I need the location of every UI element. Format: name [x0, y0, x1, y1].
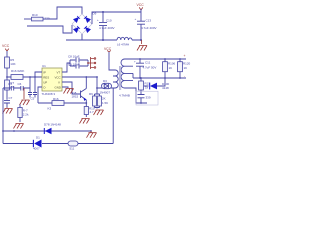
- svg-text:R120: R120: [183, 62, 191, 66]
- resistor R11: [68, 141, 78, 151]
- svg-text:270: 270: [45, 16, 50, 20]
- svg-text:RES: RES: [43, 75, 49, 79]
- svg-text:2.2k: 2.2k: [23, 113, 29, 117]
- svg-text:2K: 2K: [102, 97, 106, 101]
- svg-text:D3: D3: [103, 79, 107, 83]
- resistor R16: [48, 97, 65, 110]
- svg-text:D78 1N4148: D78 1N4148: [44, 122, 61, 126]
- ground under R14: [80, 119, 90, 124]
- svg-text:4007: 4007: [33, 146, 40, 150]
- diode D100: [144, 78, 170, 90]
- svg-text:4.7uF 400V: 4.7uF 400V: [99, 26, 115, 30]
- svg-text:R106: R106: [168, 62, 176, 66]
- capacitor C7: [4, 96, 13, 108]
- svg-text:C6: C6: [18, 82, 22, 86]
- svg-text:VCC: VCC: [55, 75, 61, 79]
- resistor R120: [178, 59, 191, 78]
- wire output rail lower: [133, 77, 186, 79]
- capacitor C13: [135, 9, 157, 40]
- svg-text:C4: C4: [8, 82, 12, 86]
- svg-text:R16: R16: [53, 97, 59, 101]
- svg-text:1N4007: 1N4007: [100, 90, 111, 94]
- svg-text:4.7uF 50V: 4.7uF 50V: [143, 66, 157, 70]
- svg-text:GND: GND: [55, 85, 61, 89]
- svg-text:C7: C7: [9, 96, 13, 100]
- node pin wires: [34, 76, 36, 78]
- wire pin GND stub: [62, 87, 68, 88]
- ground under R8: [14, 124, 24, 129]
- svg-text:C11: C11: [145, 61, 151, 65]
- svg-text:+: +: [184, 54, 186, 58]
- wire snubber horizontal: [97, 88, 113, 144]
- svg-text:UP: UP: [43, 80, 47, 84]
- svg-text:C10: C10: [106, 19, 112, 23]
- svg-text:C8 10uF: C8 10uF: [68, 55, 80, 59]
- node VCC wire snubber: [96, 76, 98, 78]
- wire AC input top: [24, 18, 31, 20]
- svg-text:V: V: [58, 80, 60, 84]
- wire pin O to R16: [38, 87, 52, 103]
- transformer T1 core: [119, 66, 120, 90]
- node junction top rail C10: [102, 11, 104, 13]
- svg-text:339: 339: [146, 96, 151, 100]
- wire R6 to IC: [7, 76, 42, 78]
- svg-text:4.7: 4.7: [90, 110, 95, 114]
- ground bus symbol: [87, 131, 97, 138]
- power port VCC right top: [137, 3, 145, 10]
- node junction rail C13: [140, 39, 142, 41]
- svg-text:C13: C13: [146, 19, 152, 23]
- transistor Q2: [72, 89, 87, 101]
- capacitor C8: [68, 55, 80, 63]
- wire secondary bottom: [133, 88, 147, 103]
- capacitor C4: [8, 82, 14, 90]
- transformer T1 secondary winding: [121, 59, 133, 88]
- svg-text:4.7uF 400V: 4.7uF 400V: [141, 26, 157, 30]
- svg-text:D1: D1: [36, 136, 40, 140]
- node snubber resistors: [96, 87, 98, 89]
- svg-text:K3: K3: [48, 106, 52, 110]
- svg-text:511: 511: [70, 147, 75, 151]
- wire R5 down: [6, 68, 8, 80]
- ground cap row: [20, 88, 30, 105]
- wire resistor pair stub: [95, 88, 100, 109]
- svg-text:4.7MHB: 4.7MHB: [119, 94, 130, 98]
- wire secondary tap: [132, 73, 134, 78]
- resistor R6: [11, 69, 24, 80]
- power port VCC left: [2, 44, 10, 51]
- svg-text:C9 10uF: C9 10uF: [68, 62, 80, 66]
- wire pin V to Q2 base: [62, 82, 80, 94]
- resistor R14: [84, 107, 95, 118]
- ground resistor pair: [94, 110, 104, 115]
- wire R7 down: [6, 90, 8, 100]
- wire snubber vertical: [96, 77, 98, 88]
- svg-text:IP: IP: [43, 70, 46, 74]
- ground primary rail: [137, 40, 147, 51]
- ground IC: [64, 89, 74, 94]
- svg-text:1.5K: 1.5K: [102, 101, 108, 105]
- capacitor C3: [28, 77, 32, 98]
- capacitor C15: [138, 95, 151, 100]
- wire secondary top rail: [133, 58, 186, 60]
- wire Q2 collector up: [85, 77, 87, 89]
- resistor R5: [5, 57, 16, 68]
- wire filter cap row: [3, 87, 30, 89]
- svg-text:10K: 10K: [10, 62, 15, 66]
- wire bottom rail: [66, 34, 141, 40]
- resistor R106: [163, 59, 176, 78]
- wire R16 right: [64, 102, 86, 104]
- svg-text:R9: R9: [89, 92, 93, 96]
- svg-text:4148: 4148: [162, 86, 169, 90]
- svg-text:VT: VT: [57, 70, 61, 74]
- svg-text:VCC: VCC: [137, 3, 145, 7]
- svg-text:1815: 1815: [72, 95, 79, 99]
- wire R15 branch: [140, 78, 142, 103]
- capacitor C6: [18, 82, 24, 90]
- box outline feedback: [136, 91, 158, 105]
- IC U1 THX208: [42, 64, 63, 96]
- ground under C7: [3, 108, 13, 114]
- wire VCC to transformer primary: [109, 52, 113, 70]
- node left column: [6, 76, 8, 78]
- svg-text:+: +: [134, 60, 136, 64]
- resistor R10: [32, 13, 50, 21]
- connector CN1: [88, 57, 96, 69]
- resistor R8 vertical left bottom: [18, 105, 29, 123]
- wire VCC left stem: [6, 51, 8, 57]
- capacitor C9: [68, 62, 80, 68]
- svg-text:R10: R10: [32, 13, 38, 17]
- bridge rectifier D9: [72, 12, 97, 35]
- wire ground bus mid: [3, 130, 91, 132]
- svg-text:-: -: [184, 74, 185, 78]
- wire pin VT to caps: [62, 60, 88, 72]
- node junction bottom rail C10: [102, 39, 104, 41]
- inductor L6: [117, 37, 132, 46]
- svg-text:1K: 1K: [184, 66, 188, 70]
- svg-text:VCC: VCC: [2, 44, 10, 48]
- svg-text:1K: 1K: [169, 66, 173, 70]
- node caps join: [87, 62, 89, 64]
- diode D78: [44, 122, 61, 134]
- wire Q2 emitter down: [85, 100, 87, 107]
- wire pin VCC right: [62, 76, 97, 78]
- wire bottom run: [3, 143, 113, 145]
- resistor R12: [98, 96, 109, 106]
- svg-text:L6 47MH: L6 47MH: [117, 43, 129, 47]
- power port VCC mid: [104, 47, 112, 52]
- diode D6 snubber: [100, 79, 112, 94]
- svg-text:C5: C5: [31, 97, 35, 101]
- capacitor C10: [97, 12, 115, 40]
- wire AC input bottom to bridge left: [27, 25, 72, 33]
- capacitor C11: [134, 59, 156, 78]
- svg-text:THX208 3: THX208 3: [42, 92, 56, 96]
- capacitor C5: [31, 93, 38, 101]
- wire left rail: [2, 88, 4, 144]
- svg-text:+: +: [135, 17, 137, 21]
- svg-text:U1: U1: [42, 64, 46, 68]
- diode D1: [33, 136, 42, 151]
- resistor R9: [89, 92, 106, 106]
- resistor R15: [139, 81, 151, 90]
- svg-text:+: +: [97, 18, 99, 22]
- transformer T1 primary winding: [113, 70, 118, 88]
- wire R10 to bridge top: [43, 7, 82, 19]
- svg-text:R16 620K: R16 620K: [11, 69, 24, 73]
- wire bridge right to top rail: [92, 12, 141, 24]
- resistor R7: [5, 80, 15, 90]
- wire pin IP stub: [35, 72, 42, 92]
